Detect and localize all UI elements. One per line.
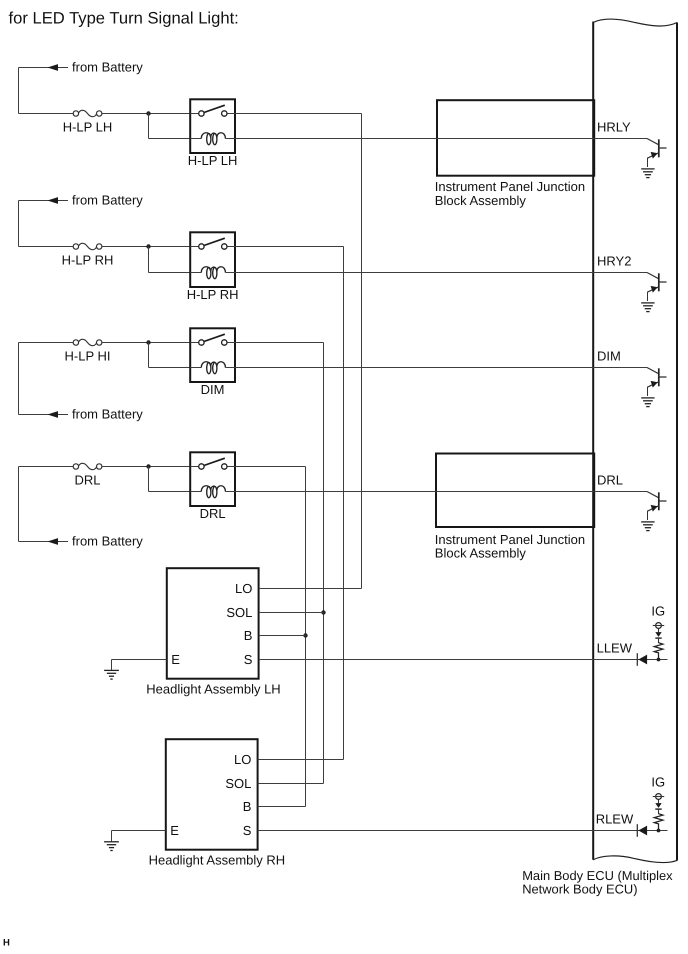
diode (on LLEW line) xyxy=(637,653,647,666)
fuse H-LP LH xyxy=(63,110,113,134)
wire switch output row 3 xyxy=(235,343,324,784)
svg-text:DRL: DRL xyxy=(200,506,226,521)
diode (IG series, RLEW) xyxy=(655,803,661,814)
Headlight Assembly LH box xyxy=(167,568,259,679)
svg-text:from Battery: from Battery xyxy=(72,60,143,75)
ground (ECU HRY2) xyxy=(641,303,654,312)
junction dot B bus xyxy=(303,633,307,637)
from Battery feed row 1 xyxy=(19,60,144,75)
wire coil to ECU (HRY2) xyxy=(235,272,647,274)
svg-text:H-LP RH: H-LP RH xyxy=(62,253,114,268)
svg-text:SOL: SOL xyxy=(225,776,251,791)
wire LH B xyxy=(259,635,306,637)
svg-text:SOL: SOL xyxy=(226,605,252,620)
relay H-LP RH box xyxy=(190,232,235,287)
svg-text:IG: IG xyxy=(651,603,665,618)
Instrument Panel Junction Block Assembly label 2 xyxy=(435,532,585,561)
Instrument Panel Junction Block Assembly box 1 xyxy=(437,100,594,176)
wire coil to ECU (HRLY) xyxy=(235,138,647,140)
Instrument Panel Junction Block Assembly box 2 xyxy=(436,454,594,528)
svg-text:H-LP RH: H-LP RH xyxy=(187,287,239,302)
junction dot row 4 xyxy=(146,464,150,468)
relay DIM xyxy=(190,328,235,397)
junction dot row 3 xyxy=(146,340,150,344)
wire coil to ECU (DIM) xyxy=(235,367,647,369)
svg-text:LLEW: LLEW xyxy=(597,640,633,655)
wire LH LO xyxy=(259,588,362,590)
Main Body ECU torn bottom edge xyxy=(593,856,677,863)
transistor (DRL driver) xyxy=(647,492,667,521)
wire switch output row 4 xyxy=(235,467,306,807)
svg-text:H-LP LH: H-LP LH xyxy=(63,120,113,135)
svg-text:H: H xyxy=(3,938,10,949)
relay DRL xyxy=(190,452,235,521)
svg-text:DIM: DIM xyxy=(597,348,621,363)
svg-text:DRL: DRL xyxy=(597,472,623,487)
wire fuse to relay row 4 xyxy=(102,466,190,468)
relay DIM box xyxy=(190,328,235,382)
svg-text:DRL: DRL xyxy=(74,473,100,488)
IG connector circle (RLEW) xyxy=(653,794,664,804)
svg-text:HRLY: HRLY xyxy=(597,119,631,134)
svg-text:Block Assembly: Block Assembly xyxy=(435,193,527,208)
svg-text:H-LP HI: H-LP HI xyxy=(65,349,111,364)
wire fuse to relay row 3 xyxy=(102,342,190,344)
wire fuse feed row 3 xyxy=(19,342,74,344)
wire switch output row 1 xyxy=(235,114,362,589)
wire branch to coil row 1 xyxy=(149,114,191,139)
wire fuse to relay row 1 xyxy=(102,113,190,115)
transistor (HRY2 driver) xyxy=(647,273,667,302)
wire fuse feed row 1 xyxy=(19,113,74,115)
wire RH B xyxy=(258,806,306,808)
ground (Headlight RH) xyxy=(104,842,119,851)
wire LH E xyxy=(112,660,167,670)
relay DIM coil xyxy=(190,362,235,374)
relay DRL box xyxy=(190,452,235,506)
relay H-LP RH xyxy=(187,232,239,302)
svg-text:Headlight Assembly RH: Headlight Assembly RH xyxy=(149,852,286,867)
ground (ECU HRLY) xyxy=(641,169,654,178)
ground (ECU DIM) xyxy=(641,398,654,407)
fuse DRL xyxy=(73,463,102,487)
svg-text:Headlight Assembly LH: Headlight Assembly LH xyxy=(146,681,280,696)
svg-text:RLEW: RLEW xyxy=(596,811,634,826)
transistor (HRLY driver) xyxy=(647,139,667,168)
from Battery feed row 2 xyxy=(19,193,144,208)
wire RH SOL xyxy=(258,783,324,785)
diode (on RLEW line) xyxy=(637,824,647,837)
Main Body ECU box right edge xyxy=(676,23,678,861)
Instrument Panel Junction Block Assembly label 1 xyxy=(435,179,585,208)
wire coil to ECU (DRL) xyxy=(235,491,647,493)
wire switch output row 2 xyxy=(235,247,344,760)
transistor (DIM driver) xyxy=(647,368,667,397)
wire branch to coil row 3 xyxy=(149,343,191,368)
svg-text:DIM: DIM xyxy=(201,382,225,397)
svg-text:H-LP LH: H-LP LH xyxy=(188,153,238,168)
svg-text:from Battery: from Battery xyxy=(72,407,143,422)
svg-text:from Battery: from Battery xyxy=(72,193,143,208)
wire fuse feed row 2 xyxy=(19,246,74,248)
relay H-LP LH xyxy=(188,99,238,168)
fuse H-LP RH xyxy=(62,243,114,267)
junction dot (RLEW/IG node) xyxy=(657,829,661,833)
svg-text:LO: LO xyxy=(235,581,252,596)
Main Body ECU box left edge xyxy=(592,22,594,860)
junction dot row 2 xyxy=(146,244,150,248)
wire battery riser row 2 xyxy=(18,201,20,247)
relay H-LP LH switch contact xyxy=(190,105,235,116)
svg-text:from Battery: from Battery xyxy=(72,534,143,549)
svg-text:HRY2: HRY2 xyxy=(597,253,631,268)
diode (IG series, LLEW) xyxy=(655,632,661,643)
junction dot row 1 xyxy=(146,111,150,115)
from Battery feed row 4 xyxy=(19,534,144,549)
junction dot SOL bus xyxy=(321,610,325,614)
wire RH E xyxy=(112,831,166,842)
Main Body ECU label xyxy=(522,868,673,897)
wire LH SOL xyxy=(259,612,324,614)
svg-text:Network Body ECU): Network Body ECU) xyxy=(522,882,637,897)
relay H-LP RH switch contact xyxy=(190,238,235,249)
resistor (pull-up to IG, LLEW) xyxy=(654,643,663,660)
svg-text:B: B xyxy=(244,628,253,643)
svg-text:B: B xyxy=(243,799,252,814)
IG connector circle (LLEW) xyxy=(653,623,664,633)
relay DRL switch contact xyxy=(190,458,235,469)
wire RH LO xyxy=(258,759,344,761)
wire fuse feed row 4 xyxy=(19,466,74,468)
svg-text:Block Assembly: Block Assembly xyxy=(435,546,527,561)
relay H-LP LH coil xyxy=(190,133,235,145)
wire battery riser row 3 xyxy=(18,343,20,415)
wire RH S to RLEW xyxy=(258,830,668,832)
fuse H-LP HI xyxy=(65,339,111,363)
svg-text:S: S xyxy=(243,823,252,838)
resistor (pull-up to IG, RLEW) xyxy=(654,814,663,831)
from Battery feed row 3 xyxy=(19,407,144,422)
svg-text:E: E xyxy=(170,823,179,838)
svg-text:IG: IG xyxy=(651,774,665,789)
svg-text:E: E xyxy=(171,652,180,667)
wire LH S to LLEW xyxy=(259,659,668,661)
relay DIM switch contact xyxy=(190,334,235,345)
wire battery riser row 1 xyxy=(18,68,20,114)
junction dot (LLEW/IG node) xyxy=(657,658,661,662)
Main Body ECU torn top edge xyxy=(593,19,677,26)
relay DRL coil xyxy=(190,486,235,498)
svg-text:for LED Type Turn Signal Light: for LED Type Turn Signal Light: xyxy=(9,9,239,28)
ground (Headlight LH) xyxy=(104,670,119,679)
svg-text:LO: LO xyxy=(234,752,251,767)
wire branch to coil row 4 xyxy=(149,467,191,492)
ground (ECU DRL) xyxy=(641,522,654,531)
wire branch to coil row 2 xyxy=(149,247,191,273)
wire battery riser row 4 xyxy=(18,467,20,542)
Headlight Assembly RH box xyxy=(166,739,258,850)
relay H-LP RH coil xyxy=(190,267,235,279)
relay H-LP LH box xyxy=(190,99,235,153)
svg-text:S: S xyxy=(244,652,253,667)
wire fuse to relay row 2 xyxy=(102,246,190,248)
